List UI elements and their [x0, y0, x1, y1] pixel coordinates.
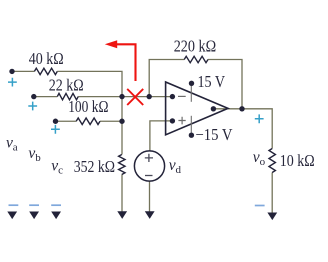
svg-text:o: o [260, 156, 266, 168]
vc - polarity [51, 204, 61, 206]
vd - polarity inside [145, 175, 153, 177]
wire vc terminal to R3 [56, 120, 77, 122]
resistor R3 100 kOhm [76, 118, 100, 125]
wire vb terminal to R2 [34, 96, 58, 98]
wire op-amp output to load corner [213, 109, 272, 149]
wire op-amp plus input left and down to vd source [150, 121, 172, 151]
op-amp -15V terminal dot [189, 133, 194, 138]
vb - polarity [29, 204, 39, 206]
wire summing junction to inverting node (broken by X) [122, 96, 149, 98]
svg-text:b: b [35, 152, 41, 164]
wire vd source to ground [149, 181, 151, 212]
node vb terminal [31, 94, 36, 99]
op-amp +15V terminal dot [189, 81, 194, 86]
op-amp minus terminal dot [170, 94, 175, 99]
ground rail reference [117, 211, 127, 219]
op-amp U1 triangle [166, 82, 228, 135]
wire R3 to rail junction [100, 120, 122, 122]
wire va terminal to R1 [12, 70, 34, 72]
op-amp negative supply pin [190, 116, 192, 133]
wire R2 to summing junction [78, 96, 122, 98]
svg-text:352 kΩ: 352 kΩ [74, 157, 115, 176]
junction rail row2 [119, 94, 124, 99]
vd + polarity inside [145, 154, 153, 162]
svg-text:d: d [176, 164, 182, 176]
ground vo reference [267, 213, 277, 221]
op-amp plus input sign [178, 117, 185, 125]
svg-text:15 V: 15 V [198, 72, 226, 91]
resistor R6 10 kOhm load [269, 149, 275, 173]
wire R6 to ground [271, 173, 273, 213]
resistor R2 22 kOhm [57, 93, 78, 99]
svg-text:c: c [58, 165, 63, 177]
node inverting input [147, 94, 152, 99]
wire summing rail down to R4 [121, 97, 123, 155]
op-amp plus terminal dot [170, 118, 175, 123]
node output [239, 106, 244, 111]
wire feedback: R5 right and down to output node [208, 60, 242, 109]
vo - polarity [255, 205, 265, 207]
voltage source vd circle [134, 151, 164, 181]
op-amp output terminal dot [211, 106, 216, 111]
op-amp positive supply pin [190, 86, 192, 102]
svg-text:100 kΩ: 100 kΩ [68, 97, 108, 116]
node vc terminal [53, 119, 58, 124]
vc + polarity [51, 125, 60, 134]
wire R1 to summing rail top corner [57, 71, 122, 96]
red break X mark [127, 89, 143, 105]
wire R4 to ground [121, 175, 123, 213]
vo + polarity [255, 114, 264, 123]
junction rail row3 [119, 119, 124, 124]
svg-text:10 kΩ: 10 kΩ [280, 151, 315, 170]
svg-text:220 kΩ: 220 kΩ [174, 37, 217, 56]
ground va reference [7, 212, 17, 220]
va - polarity [9, 204, 19, 206]
resistor R4 352 kOhm [119, 155, 125, 175]
wire inverting node to op-amp minus input [149, 96, 171, 98]
resistor R1 40 kOhm [34, 68, 57, 74]
ground vd reference [145, 211, 155, 219]
vb + polarity [28, 102, 37, 111]
node va terminal [9, 69, 14, 74]
red pointer arrow [116, 44, 136, 81]
va + polarity [8, 78, 17, 87]
resistor R5 220 kOhm feedback [184, 56, 208, 62]
svg-text:22 kΩ: 22 kΩ [49, 76, 84, 95]
wire feedback: inverting node up and right to R5 [149, 60, 184, 97]
op-amp minus input sign [178, 95, 186, 97]
svg-text:−15 V: −15 V [196, 125, 233, 144]
ground vc reference [51, 212, 61, 220]
svg-text:a: a [13, 142, 18, 154]
svg-text:40 kΩ: 40 kΩ [29, 49, 64, 68]
ground vb reference [29, 212, 39, 220]
